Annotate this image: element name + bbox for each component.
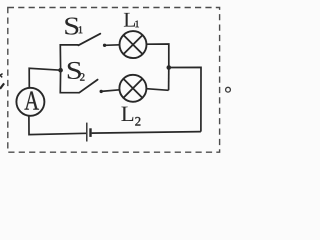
label L2 [121, 107, 140, 126]
junction node J2 [167, 65, 172, 70]
wire junction J1 up to S1 branch [60, 45, 78, 70]
wire S2 left to junction J1 [60, 70, 79, 93]
wire ammeter top to left junction [29, 68, 60, 88]
ammeter A [16, 88, 44, 116]
lamp L1 [120, 31, 147, 58]
lamp L2 [119, 75, 146, 102]
switch S1 [78, 34, 106, 47]
wire L2 right corner to lamp L2 [146, 89, 168, 91]
wire lamp L1 right down to junction J2 [147, 44, 169, 68]
wire S1 to lamp L1 [105, 44, 120, 47]
wire junction J2 to right corner down [169, 67, 201, 131]
switch S2 [79, 80, 103, 94]
wire battery to ammeter bottom [29, 116, 86, 135]
text fragment at left edge [0, 74, 4, 89]
junction node J1 [58, 68, 63, 73]
label S2 [68, 62, 85, 81]
wire bottom right to battery [92, 132, 201, 134]
battery [87, 123, 92, 142]
label L1 [124, 13, 139, 27]
wire junction J2 down to L2 corner [168, 68, 170, 91]
wire lamp L2 to switch S2 [101, 90, 119, 92]
label S1 [65, 18, 82, 35]
terminal node (right, outside frame) [226, 87, 231, 92]
